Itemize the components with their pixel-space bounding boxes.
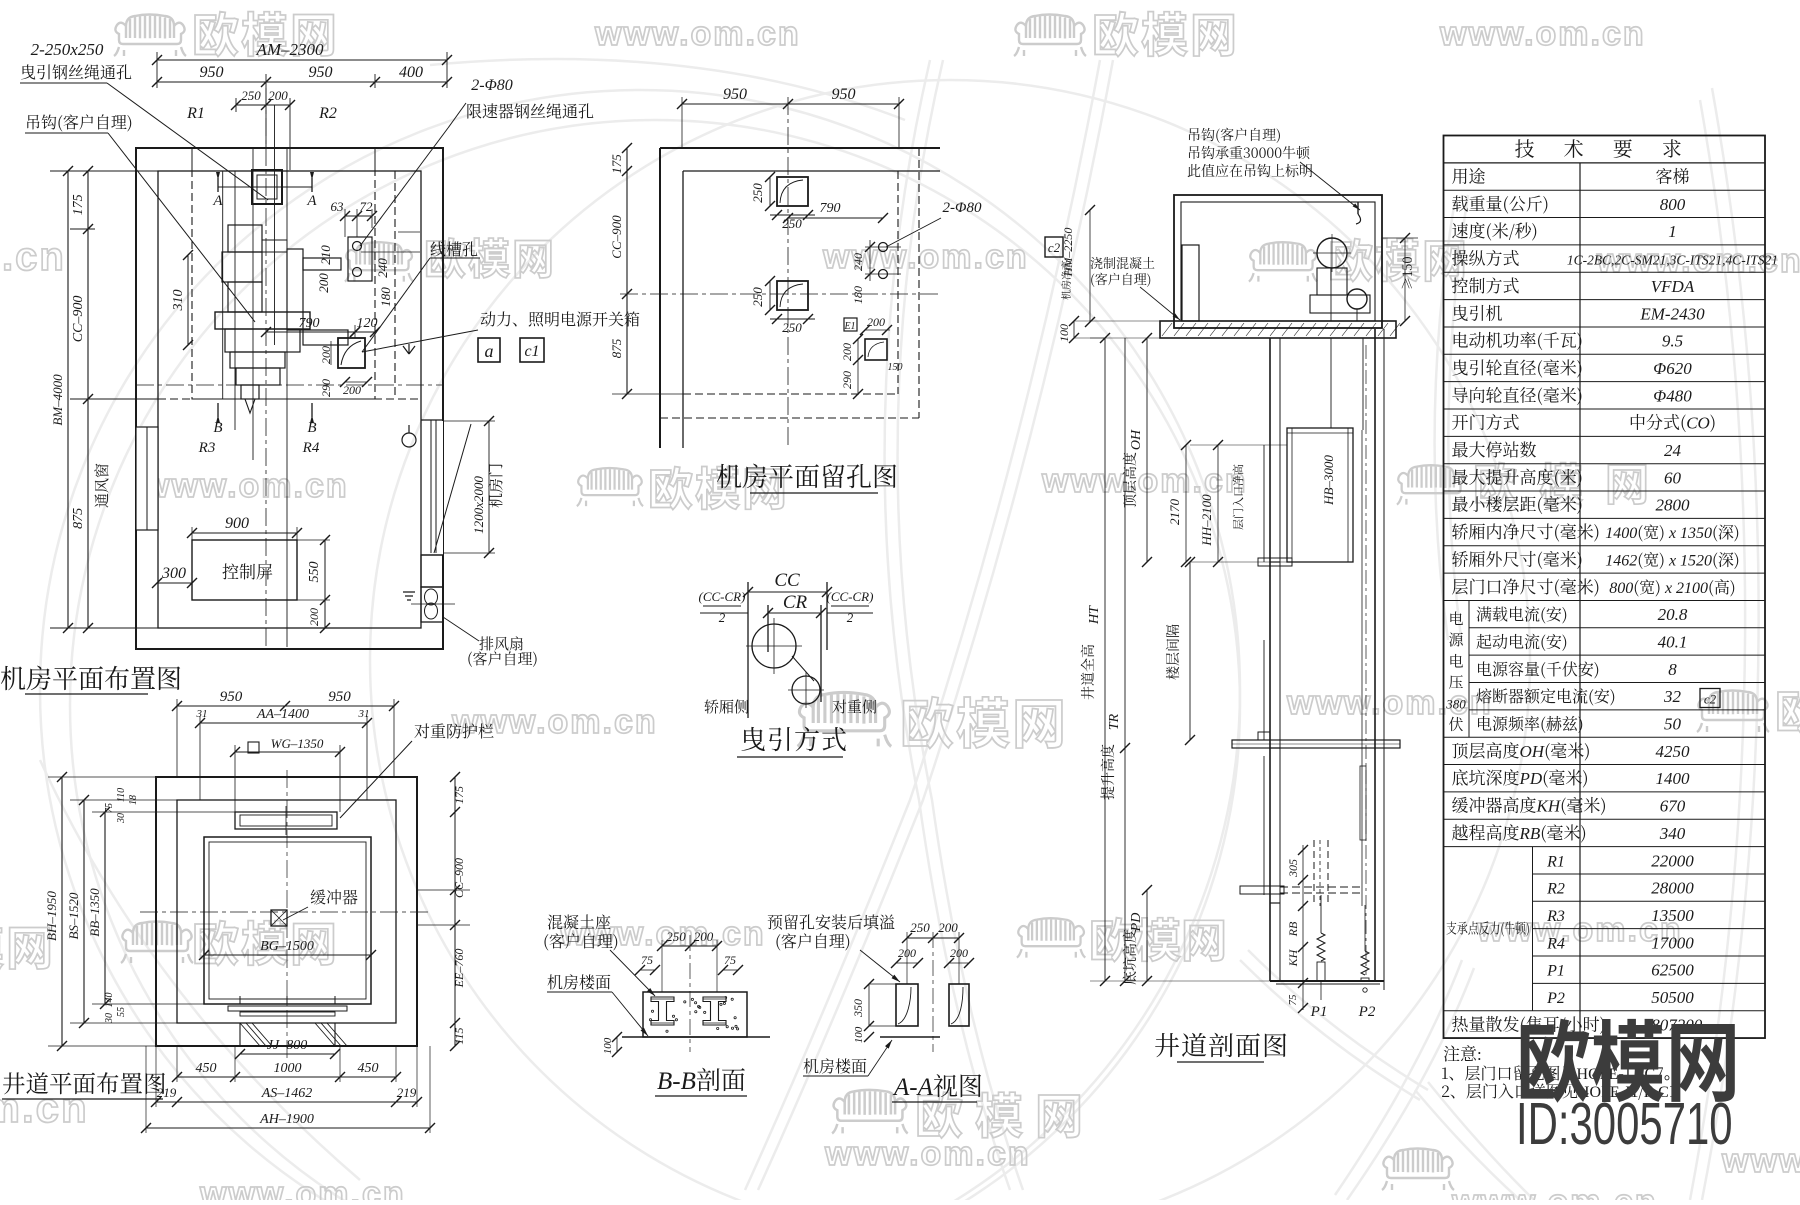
svg-text:200: 200 (950, 946, 968, 960)
svg-text:790: 790 (820, 201, 841, 216)
svg-text:P2: P2 (1358, 1004, 1376, 1020)
svg-text:250: 250 (750, 287, 765, 307)
svg-text:电源频率(赫兹): 电源频率(赫兹) (1476, 712, 1584, 735)
svg-text:13500: 13500 (1651, 906, 1694, 925)
svg-text:Φ480: Φ480 (1653, 386, 1692, 405)
svg-text:RB: RB (1286, 921, 1300, 937)
svg-text:c1: c1 (524, 343, 539, 360)
svg-text:HB–3000: HB–3000 (1321, 455, 1336, 506)
svg-text:电动机功率(千瓦): 电动机功率(千瓦) (1452, 327, 1583, 352)
svg-text:控制屏: 控制屏 (222, 558, 273, 583)
svg-text:VFDA: VFDA (1651, 277, 1695, 296)
svg-text:CC–900: CC–900 (452, 858, 466, 898)
svg-text:200: 200 (343, 383, 361, 397)
svg-text:BG–1500: BG–1500 (260, 939, 314, 954)
svg-text:140: 140 (104, 993, 115, 1008)
svg-text:曳引方式: 曳引方式 (740, 720, 848, 757)
svg-text:吊钩(客户自理): 吊钩(客户自理) (1187, 125, 1281, 145)
svg-text:曳引轮直径(毫米): 曳引轮直径(毫米) (1452, 354, 1583, 379)
svg-text:B: B (213, 420, 222, 436)
svg-text:(客户自理): (客户自理) (543, 929, 619, 952)
svg-text:28000: 28000 (1651, 879, 1694, 898)
svg-text:2: 2 (847, 610, 854, 625)
svg-text:c2: c2 (1704, 692, 1717, 707)
svg-text:R2: R2 (1546, 881, 1565, 898)
svg-text:井道平面布置图: 井道平面布置图 (2, 1065, 167, 1099)
svg-text:CC–900: CC–900 (609, 215, 624, 259)
svg-text:最大停站数: 最大停站数 (1452, 436, 1537, 461)
svg-text:175: 175 (609, 154, 624, 174)
svg-text:340: 340 (1659, 824, 1686, 843)
svg-text:缓冲器: 缓冲器 (310, 885, 358, 908)
svg-text:31: 31 (358, 708, 370, 720)
svg-text:曳引机: 曳引机 (1452, 299, 1503, 324)
svg-text:操纵方式: 操纵方式 (1452, 245, 1520, 270)
svg-text:290: 290 (319, 379, 333, 397)
svg-text:Φ620: Φ620 (1653, 359, 1692, 378)
svg-text:欧模网: 欧模网 (1092, 0, 1239, 66)
svg-text:2-Φ80: 2-Φ80 (943, 200, 982, 216)
svg-text:www.om.cn: www.om.cn (1721, 1142, 1800, 1180)
svg-text:670: 670 (1660, 797, 1686, 816)
svg-text:950: 950 (200, 64, 224, 81)
svg-text:机房平面留孔图: 机房平面留孔图 (716, 457, 898, 494)
svg-text:限速器钢丝绳通孔: 限速器钢丝绳通孔 (466, 99, 594, 122)
svg-text:EM-2430: EM-2430 (1639, 304, 1705, 323)
svg-text:开门方式: 开门方式 (1452, 409, 1520, 434)
svg-text:62500: 62500 (1651, 961, 1694, 980)
svg-text:4250: 4250 (1656, 742, 1691, 761)
svg-text:(客户自理): (客户自理) (775, 929, 851, 952)
svg-text:轿厢内净尺寸(毫米): 轿厢内净尺寸(毫米) (1452, 518, 1600, 543)
svg-text:吊钩(客户自理): 吊钩(客户自理) (25, 110, 133, 133)
svg-text:欧模网: 欧模网 (1089, 905, 1227, 971)
svg-text:对重侧: 对重侧 (832, 696, 877, 717)
svg-text:EE–760: EE–760 (452, 949, 466, 989)
svg-text:最大提升高度(米): 最大提升高度(米) (1452, 463, 1583, 488)
svg-text:压: 压 (1448, 671, 1463, 692)
svg-text:950: 950 (832, 86, 856, 103)
svg-text:120: 120 (357, 316, 378, 331)
svg-text:100: 100 (853, 1026, 865, 1043)
svg-text:300: 300 (161, 565, 186, 582)
svg-text:提升高度: 提升高度 (1098, 740, 1118, 800)
svg-text:CC–900: CC–900 (71, 296, 86, 343)
svg-text:2-250x250: 2-250x250 (31, 40, 104, 59)
svg-text:AM–2300: AM–2300 (255, 40, 324, 59)
svg-text:支承点反力(牛顿): 支承点反力(牛顿) (1446, 919, 1530, 939)
svg-text:导向轮直径(毫米): 导向轮直径(毫米) (1452, 381, 1583, 406)
svg-text:200: 200 (316, 273, 331, 293)
svg-text:客梯: 客梯 (1656, 163, 1690, 188)
svg-text:www.om.cn: www.om.cn (824, 1135, 1031, 1173)
svg-text:(客户自理): (客户自理) (467, 648, 538, 669)
svg-text:219: 219 (397, 1085, 417, 1100)
svg-text:(客户自理): (客户自理) (1090, 269, 1151, 288)
svg-text:B: B (307, 420, 316, 436)
svg-text:200: 200 (307, 608, 321, 626)
svg-text:180: 180 (851, 286, 865, 304)
svg-text:层门口净尺寸(毫米): 层门口净尺寸(毫米) (1452, 573, 1600, 598)
svg-text:250: 250 (750, 183, 765, 203)
svg-text:200: 200 (268, 88, 288, 103)
svg-text:100: 100 (602, 1037, 614, 1054)
svg-text:此值应在吊钩上标明: 此值应在吊钩上标明 (1187, 161, 1313, 181)
svg-text:A: A (212, 193, 223, 209)
svg-text:KH: KH (1286, 948, 1300, 967)
svg-text:2: 2 (719, 610, 726, 625)
svg-text:175: 175 (452, 786, 466, 804)
svg-text:AS–1462: AS–1462 (261, 1086, 313, 1101)
svg-text:BH–1950: BH–1950 (44, 891, 59, 941)
svg-text:1000: 1000 (274, 1061, 302, 1076)
svg-text:1200x2000: 1200x2000 (471, 476, 486, 534)
svg-text:速度(米/秒): 速度(米/秒) (1452, 217, 1538, 242)
svg-text:电: 电 (1448, 608, 1463, 629)
svg-text:875: 875 (609, 338, 624, 358)
svg-text:AA–1400: AA–1400 (256, 707, 309, 722)
svg-text:240: 240 (375, 258, 390, 278)
svg-text:450: 450 (196, 1061, 217, 1076)
svg-text:2170: 2170 (1167, 499, 1182, 526)
svg-text:2-Φ80: 2-Φ80 (471, 77, 513, 94)
svg-text:动力、照明电源开关箱: 动力、照明电源开关箱 (480, 307, 640, 330)
svg-text:曳引钢丝绳通孔: 曳引钢丝绳通孔 (20, 60, 132, 83)
svg-text:电源容量(千伏安): 电源容量(千伏安) (1476, 657, 1600, 680)
svg-text:17000: 17000 (1651, 933, 1694, 952)
svg-text:875: 875 (71, 508, 86, 529)
svg-text:≥150: ≥150 (1397, 256, 1416, 290)
svg-text:30: 30 (104, 1013, 115, 1024)
svg-text:起动电流(安): 起动电流(安) (1476, 629, 1568, 652)
svg-text:线槽孔: 线槽孔 (430, 237, 478, 260)
svg-text:950: 950 (328, 689, 351, 705)
svg-text:PD: PD (1129, 913, 1144, 933)
svg-text:最小楼层距(毫米): 最小楼层距(毫米) (1452, 491, 1583, 516)
svg-text:JJ–800: JJ–800 (267, 1038, 307, 1053)
svg-text:50: 50 (1664, 715, 1682, 734)
svg-text:欧模网: 欧模网 (1775, 676, 1800, 742)
svg-text:P1: P1 (1310, 1004, 1328, 1020)
svg-text:175: 175 (71, 194, 86, 215)
svg-text:井道剖面图: 井道剖面图 (1154, 1026, 1289, 1063)
svg-text:轿厢外尺寸(毫米): 轿厢外尺寸(毫米) (1452, 545, 1583, 570)
svg-text:550: 550 (307, 562, 322, 583)
svg-text:75: 75 (1287, 994, 1299, 1006)
svg-text:450: 450 (358, 1061, 379, 1076)
svg-text:WG–1350: WG–1350 (271, 736, 324, 751)
svg-text:63: 63 (331, 199, 345, 214)
svg-text:200: 200 (840, 343, 854, 361)
svg-text:控制方式: 控制方式 (1452, 272, 1520, 297)
svg-text:150: 150 (888, 362, 903, 373)
svg-text:R1: R1 (186, 105, 205, 122)
svg-text:机房楼面: 机房楼面 (547, 970, 611, 993)
svg-text:800: 800 (1660, 195, 1686, 214)
svg-text:BS–1520: BS–1520 (66, 892, 81, 939)
svg-text:305: 305 (1286, 859, 1300, 878)
svg-text:www.om.cn: www.om.cn (1041, 462, 1248, 500)
svg-text:9.5: 9.5 (1662, 332, 1683, 351)
svg-text:790: 790 (299, 316, 320, 331)
svg-text:75: 75 (104, 803, 115, 813)
svg-text:吊钩承重30000牛顿: 吊钩承重30000牛顿 (1187, 143, 1311, 163)
svg-text:伏: 伏 (1448, 714, 1463, 735)
svg-text:www.om.cn: www.om.cn (1451, 1183, 1658, 1200)
svg-text:欧模网: 欧模网 (900, 680, 1068, 759)
svg-text:BB–1350: BB–1350 (87, 888, 102, 937)
svg-text:底坑高度: 底坑高度 (1120, 925, 1140, 985)
svg-text:8: 8 (1668, 660, 1677, 679)
svg-text:井道全高: 井道全高 (1078, 640, 1098, 700)
svg-text:TR: TR (1107, 713, 1122, 730)
svg-text:缓冲器高度KH(毫米): 缓冲器高度KH(毫米) (1452, 792, 1607, 817)
svg-text:250: 250 (666, 929, 686, 944)
svg-text:机房平面布置图: 机房平面布置图 (0, 659, 182, 696)
svg-text:250: 250 (782, 320, 802, 335)
svg-text:950: 950 (309, 64, 333, 81)
svg-text:200: 200 (938, 920, 958, 935)
svg-text:c2: c2 (1048, 240, 1061, 255)
svg-text:380: 380 (1445, 697, 1466, 712)
svg-text:60: 60 (1664, 468, 1682, 487)
svg-text:A: A (306, 193, 317, 209)
svg-text:E1: E1 (843, 321, 855, 332)
svg-text:2800: 2800 (1656, 496, 1691, 515)
svg-text:(CC-CR): (CC-CR) (827, 589, 874, 604)
svg-text:R2: R2 (318, 105, 337, 122)
svg-text:240: 240 (851, 253, 865, 271)
svg-text:75: 75 (641, 953, 653, 967)
svg-text:www.om.cn: www.om.cn (199, 1175, 406, 1200)
svg-text:310: 310 (171, 290, 186, 312)
svg-text:200: 200 (898, 946, 916, 960)
svg-text:熔断器额定电流(安): 熔断器额定电流(安) (1476, 684, 1616, 707)
svg-text:250: 250 (241, 88, 261, 103)
svg-text:电: 电 (1448, 650, 1463, 671)
svg-text:技 术 要 求: 技 术 要 求 (1515, 133, 1694, 162)
svg-text:om.cn: om.cn (0, 235, 66, 279)
svg-text:R3: R3 (198, 440, 216, 456)
svg-text:用途: 用途 (1452, 163, 1486, 188)
svg-text:200: 200 (867, 315, 885, 329)
svg-text:24: 24 (1664, 441, 1682, 460)
svg-text:越程高度RB(毫米): 越程高度RB(毫米) (1452, 819, 1587, 844)
svg-text:950: 950 (723, 86, 747, 103)
svg-text:顶层高度: 顶层高度 (1120, 448, 1140, 508)
svg-text:HH–2100: HH–2100 (1199, 494, 1214, 547)
svg-text:55: 55 (116, 1007, 127, 1017)
svg-text:BM–4000: BM–4000 (50, 374, 65, 426)
svg-text:OH: OH (1129, 429, 1144, 450)
svg-text:机房楼面: 机房楼面 (803, 1054, 867, 1077)
svg-text:层门入口净高: 层门入口净高 (1230, 464, 1246, 530)
svg-text:www.om.cn: www.om.cn (594, 15, 801, 53)
svg-text:楼层间隔: 楼层间隔 (1163, 624, 1183, 680)
svg-text:110: 110 (116, 788, 127, 802)
svg-text:180: 180 (378, 287, 393, 307)
svg-text:R4: R4 (1546, 935, 1565, 952)
svg-text:满载电流(安): 满载电流(安) (1476, 602, 1568, 625)
svg-text:www.om.cn: www.om.cn (142, 467, 349, 505)
svg-text:P1: P1 (1546, 963, 1565, 980)
svg-text:40.1: 40.1 (1658, 632, 1688, 651)
svg-text:1400: 1400 (1656, 769, 1691, 788)
svg-text:通风窗: 通风窗 (91, 463, 112, 508)
svg-text:290: 290 (840, 371, 854, 389)
svg-text:机房净高: 机房净高 (1058, 260, 1073, 300)
svg-text:载重量(公斤): 载重量(公斤) (1452, 190, 1549, 215)
svg-text:R4: R4 (302, 440, 320, 456)
svg-text:1: 1 (1668, 222, 1677, 241)
svg-text:www.om.cn: www.om.cn (1439, 15, 1646, 53)
svg-text:32: 32 (1663, 687, 1682, 706)
svg-text:22000: 22000 (1651, 851, 1694, 870)
svg-text:R1: R1 (1546, 853, 1565, 870)
svg-text:18: 18 (128, 795, 139, 805)
svg-text:950: 950 (220, 689, 243, 705)
svg-text:20.8: 20.8 (1658, 605, 1688, 624)
svg-text:100: 100 (1057, 324, 1071, 342)
svg-text:CR: CR (783, 592, 808, 613)
svg-text:轿厢侧: 轿厢侧 (704, 696, 749, 717)
svg-text:机房门: 机房门 (485, 463, 506, 508)
svg-text:210: 210 (318, 245, 333, 265)
svg-text:AH–1900: AH–1900 (259, 1112, 314, 1127)
svg-text:HT: HT (1087, 605, 1102, 625)
svg-text:1C-2BC,2C-SM21,3C-ITS21,4C-ITS: 1C-2BC,2C-SM21,3C-ITS21,4C-ITS21 (1567, 253, 1778, 268)
svg-text:ID:3005710: ID:3005710 (1516, 1091, 1733, 1157)
svg-text:R3: R3 (1546, 908, 1565, 925)
svg-text:a: a (485, 341, 494, 361)
svg-text:250: 250 (910, 920, 930, 935)
svg-text:CC: CC (774, 570, 800, 591)
svg-text:200: 200 (694, 929, 714, 944)
svg-text:75: 75 (724, 953, 736, 967)
svg-text:400: 400 (399, 64, 423, 81)
svg-text:350: 350 (851, 999, 865, 1018)
svg-text:30: 30 (116, 813, 127, 824)
svg-text:(CC-CR): (CC-CR) (699, 589, 746, 604)
svg-text:31: 31 (196, 708, 208, 720)
svg-text:115: 115 (452, 1027, 466, 1044)
svg-text:72: 72 (360, 199, 374, 214)
svg-text:900: 900 (225, 515, 249, 532)
svg-text:源: 源 (1448, 629, 1464, 650)
svg-text:对重防护栏: 对重防护栏 (414, 719, 494, 742)
